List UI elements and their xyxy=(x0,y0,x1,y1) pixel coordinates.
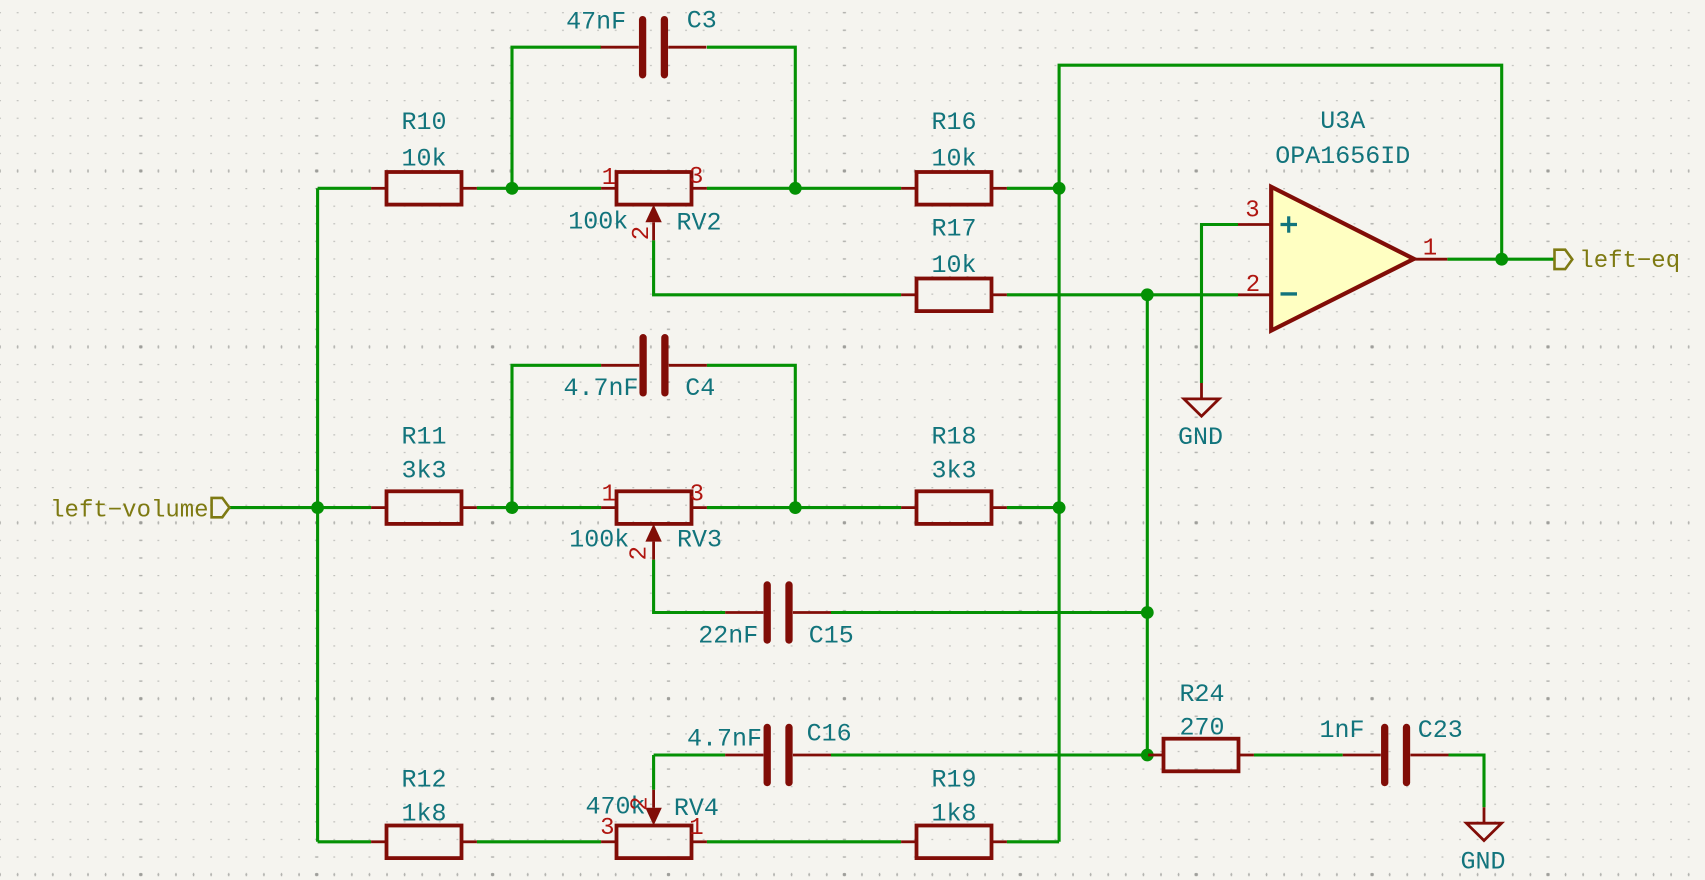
svg-text:2: 2 xyxy=(626,546,653,560)
svg-text:R16: R16 xyxy=(931,108,976,137)
svg-text:1k8: 1k8 xyxy=(401,800,446,829)
svg-text:3: 3 xyxy=(689,164,703,191)
wire C4 branch xyxy=(512,365,601,507)
svg-text:3k3: 3k3 xyxy=(931,457,976,486)
capacitor C3 xyxy=(601,20,707,75)
svg-text:OPA1656ID: OPA1656ID xyxy=(1275,142,1410,171)
svg-text:100k: 100k xyxy=(568,208,628,237)
wire RV4 pin1 to R19 xyxy=(707,840,901,843)
svg-text:1nF: 1nF xyxy=(1319,716,1364,745)
wire R18 to feedback vertical xyxy=(1007,506,1059,509)
junction C3 right tap xyxy=(789,182,802,195)
hierarchical label left−eq xyxy=(1555,250,1573,269)
potentiometer RV4 xyxy=(601,790,707,858)
junction R18 output node xyxy=(1053,501,1066,514)
svg-text:R17: R17 xyxy=(931,215,976,244)
capacitor C4 xyxy=(601,338,707,393)
svg-text:3: 3 xyxy=(600,815,614,842)
capacitor C16 xyxy=(725,727,831,782)
wire RV2 wiper to R17 row xyxy=(654,240,902,294)
hierarchical label left−volume xyxy=(212,498,230,517)
op-amp U3A OPA1656ID xyxy=(1238,187,1447,331)
svg-text:100k: 100k xyxy=(569,525,629,554)
svg-text:2: 2 xyxy=(1246,272,1260,299)
svg-text:3: 3 xyxy=(1245,198,1259,225)
svg-text:GND: GND xyxy=(1460,847,1505,876)
junction inverting node xyxy=(1141,288,1154,301)
svg-text:C23: C23 xyxy=(1418,716,1463,745)
svg-text:R11: R11 xyxy=(401,423,446,452)
wire R19 to feedback vertical xyxy=(1007,840,1059,843)
wire RV2 pin3 to R16 xyxy=(707,187,901,190)
svg-text:R10: R10 xyxy=(401,108,446,137)
wire C15 to inverting vertical xyxy=(831,611,1147,614)
svg-text:C4: C4 xyxy=(685,374,715,403)
svg-text:4.7nF: 4.7nF xyxy=(563,374,638,403)
svg-text:left−eq: left−eq xyxy=(1579,248,1680,275)
potentiometer RV3 xyxy=(601,491,707,559)
wire R11 to RV3 pin1 xyxy=(477,506,601,509)
wire bus to R12 xyxy=(318,840,372,843)
svg-text:2: 2 xyxy=(629,226,656,240)
wire opamp pin3 to GND1 xyxy=(1202,225,1239,384)
ground GND2 xyxy=(1466,807,1501,840)
wire feedback top xyxy=(1059,65,1502,259)
wire bus to R11 xyxy=(318,506,372,509)
svg-text:10k: 10k xyxy=(931,145,976,174)
junction C3 left tap xyxy=(506,182,519,195)
resistor R12 xyxy=(371,826,477,859)
svg-text:3: 3 xyxy=(690,481,704,508)
resistor R19 xyxy=(901,826,1007,859)
svg-text:R24: R24 xyxy=(1179,680,1224,709)
svg-text:C15: C15 xyxy=(809,622,854,651)
ground GND1 xyxy=(1184,383,1219,416)
resistor R17 xyxy=(901,279,1007,312)
junction output node xyxy=(1495,253,1508,266)
potentiometer RV2 xyxy=(601,172,707,240)
svg-text:1: 1 xyxy=(602,481,616,508)
svg-text:10k: 10k xyxy=(401,145,446,174)
wire RV3 wiper to C15 xyxy=(654,560,726,613)
svg-text:1: 1 xyxy=(602,165,616,192)
wire left-volume to bus xyxy=(229,506,317,509)
svg-text:RV3: RV3 xyxy=(677,525,722,554)
svg-text:270: 270 xyxy=(1179,713,1224,742)
resistor R11 xyxy=(371,491,477,524)
svg-text:1: 1 xyxy=(1423,236,1437,263)
wire R24 to C23 xyxy=(1254,753,1343,756)
svg-text:47nF: 47nF xyxy=(566,7,626,36)
wire C4 right branch xyxy=(707,365,795,507)
junction R24 input node xyxy=(1141,749,1154,762)
svg-text:3k3: 3k3 xyxy=(401,457,446,486)
wire inverting node to opamp pin2 xyxy=(1147,293,1238,296)
svg-text:C3: C3 xyxy=(687,7,717,36)
resistor R18 xyxy=(901,491,1007,524)
svg-text:R12: R12 xyxy=(401,766,446,795)
wire C23 to GND2 xyxy=(1449,755,1485,807)
svg-text:C16: C16 xyxy=(807,720,852,749)
wire R12 to RV4 pin3 xyxy=(477,840,601,843)
svg-text:1: 1 xyxy=(689,815,703,842)
wire R16 to feedback node xyxy=(1007,187,1059,190)
svg-text:R18: R18 xyxy=(931,423,976,452)
wire inverting vertical xyxy=(1146,295,1149,755)
wire bus to R10 xyxy=(318,187,372,190)
svg-text:10k: 10k xyxy=(931,251,976,280)
wire C3 branch xyxy=(512,47,601,188)
junction feedback node top xyxy=(1053,182,1066,195)
resistor R10 xyxy=(371,172,477,205)
wire RV3 pin3 to R18 xyxy=(707,506,901,509)
svg-text:1k8: 1k8 xyxy=(931,800,976,829)
wire R10 to RV2 pin1 xyxy=(477,187,601,190)
resistor R16 xyxy=(901,172,1007,205)
wire C16 row left xyxy=(654,753,726,756)
wire feedback vertical xyxy=(1058,188,1061,842)
wire C3 right branch xyxy=(707,47,795,188)
resistor R24 xyxy=(1148,739,1254,772)
wire RV4 wiper stem xyxy=(652,755,655,790)
wire R17 to inverting node xyxy=(1007,293,1147,296)
svg-text:22nF: 22nF xyxy=(698,622,758,651)
svg-text:U3A: U3A xyxy=(1320,107,1365,136)
svg-text:left−volume: left−volume xyxy=(50,498,208,525)
junction C15 output node xyxy=(1141,606,1154,619)
svg-text:4.7nF: 4.7nF xyxy=(687,725,762,754)
wire opamp output xyxy=(1447,258,1554,261)
junction C4 left tap xyxy=(506,501,519,514)
junction left-volume node xyxy=(311,501,324,514)
capacitor C15 xyxy=(725,585,831,640)
wire C16 to R24 node xyxy=(831,753,1147,756)
junction C4 right tap xyxy=(789,501,802,514)
svg-text:RV2: RV2 xyxy=(676,209,721,238)
svg-text:2: 2 xyxy=(628,796,655,810)
wire bus vertical xyxy=(316,188,319,842)
svg-text:GND: GND xyxy=(1178,423,1223,452)
capacitor C23 xyxy=(1343,727,1449,782)
svg-text:R19: R19 xyxy=(931,766,976,795)
